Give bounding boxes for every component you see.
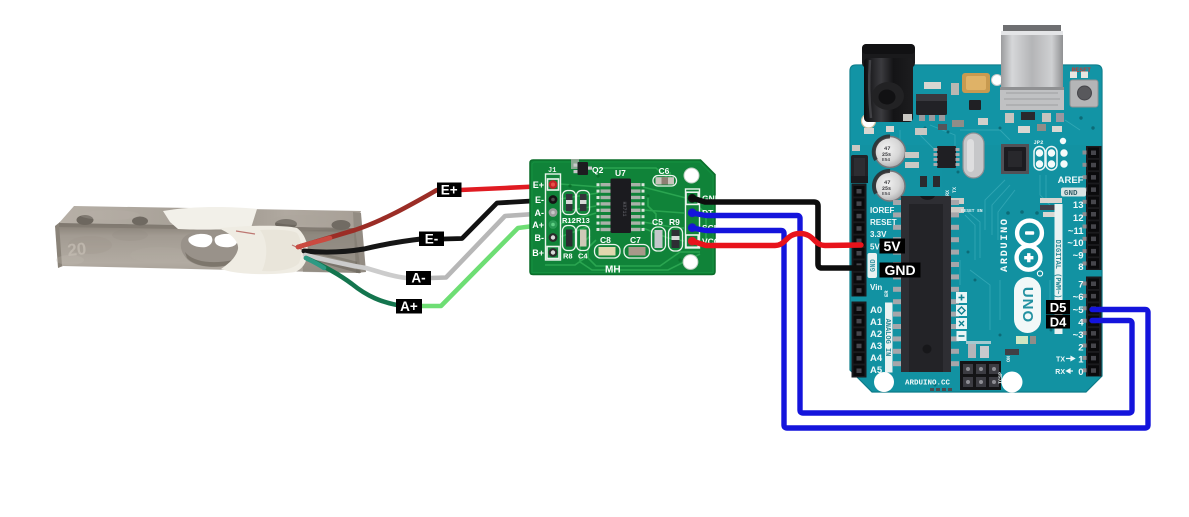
electrolytic capacitor C1 bbox=[874, 136, 906, 167]
HX711 pcb traces bbox=[545, 168, 706, 270]
svg-text:C4: C4 bbox=[578, 252, 588, 261]
resistor R12 bbox=[562, 191, 576, 226]
smd row below usb bbox=[952, 112, 1064, 127]
svg-text:~9: ~9 bbox=[1073, 251, 1084, 262]
svg-text:RX: RX bbox=[945, 190, 951, 196]
svg-text:~5: ~5 bbox=[1073, 305, 1085, 316]
left edge black component bbox=[851, 155, 868, 183]
svg-text:DIGITAL (PWM~): DIGITAL (PWM~) bbox=[1053, 240, 1061, 299]
label E- bbox=[419, 231, 444, 246]
wire GND HX711 to Arduino (black) bbox=[692, 198, 861, 268]
svg-text:MH: MH bbox=[605, 265, 621, 276]
svg-text:~10: ~10 bbox=[1067, 238, 1083, 249]
load cell bolt hole 2 bbox=[132, 217, 148, 226]
smd cluster mid right bbox=[950, 198, 1062, 217]
smd parts lower middle bbox=[966, 341, 991, 358]
svg-text:GND: GND bbox=[1064, 190, 1078, 198]
svg-text:Q2: Q2 bbox=[592, 165, 604, 175]
electrolytic capacitor C2 bbox=[874, 171, 905, 201]
svg-text:D5: D5 bbox=[1050, 300, 1067, 315]
USB interface MCU ATmega16U2 bbox=[1001, 144, 1029, 174]
J1 pin E- hole bbox=[549, 195, 558, 204]
wire VCC HX711 to Arduino 5V (red) bbox=[692, 234, 861, 246]
svg-text:B+: B+ bbox=[532, 248, 544, 258]
J1 pin labels bbox=[532, 180, 544, 258]
polyfuse bbox=[962, 73, 990, 93]
main MCU ATmega328 DIP bbox=[893, 196, 959, 372]
svg-text:C8: C8 bbox=[600, 235, 611, 245]
svg-text:GND: GND bbox=[884, 262, 915, 278]
svg-text:ON: ON bbox=[1006, 356, 1012, 362]
svg-text:TX: TX bbox=[1056, 357, 1065, 364]
label D5 bbox=[1046, 300, 1070, 315]
svg-text:D4: D4 bbox=[1050, 314, 1067, 329]
svg-text:AREF: AREF bbox=[1058, 175, 1084, 186]
load cell front face bbox=[59, 223, 361, 273]
digital header lower strip bbox=[1086, 277, 1102, 377]
svg-text:J1: J1 bbox=[548, 167, 556, 175]
svg-text:E54: E54 bbox=[882, 191, 890, 197]
J1 pin B- hole bbox=[549, 233, 558, 242]
load cell wire shadow 2 bbox=[307, 250, 357, 263]
digital header labels bbox=[1058, 175, 1085, 378]
analog header labels bbox=[870, 305, 883, 376]
Arduino mounting hole bottom right bbox=[1002, 372, 1023, 393]
small IC SO-8 bbox=[934, 146, 960, 168]
connector J1 outline bbox=[546, 174, 561, 260]
wire E+ segment from load cell (dark red) bbox=[298, 190, 437, 247]
HX711 mounting hole top right bbox=[684, 168, 699, 183]
capacitor C7 bbox=[624, 235, 650, 258]
wire E- segment from load cell (black) bbox=[304, 239, 421, 252]
svg-text:C7: C7 bbox=[630, 235, 641, 245]
reset button bbox=[1070, 80, 1098, 107]
svg-text:E54: E54 bbox=[882, 157, 890, 163]
svg-text:~11: ~11 bbox=[1068, 226, 1084, 237]
J2 pin labels bbox=[702, 194, 721, 247]
load cell epoxy blob bbox=[220, 226, 308, 274]
analog header strip bbox=[852, 302, 867, 378]
GND strip label digital bbox=[1061, 188, 1086, 199]
svg-text:13: 13 bbox=[1073, 200, 1084, 211]
svg-text:A-: A- bbox=[411, 271, 425, 286]
wire DT HX711 to Arduino D4 (blue) bbox=[692, 213, 1132, 413]
J2 GND square pad bbox=[686, 192, 698, 204]
J1 pin6 square pad bbox=[547, 247, 559, 259]
J1 pin B+ hole bbox=[549, 248, 558, 257]
label D4 bbox=[1046, 314, 1070, 329]
svg-text:RX: RX bbox=[1055, 369, 1065, 376]
label E+ bbox=[437, 182, 462, 197]
svg-text:ICSP: ICSP bbox=[998, 372, 1004, 384]
Arduino UNO board bbox=[850, 65, 1102, 392]
svg-text:A-: A- bbox=[535, 208, 545, 218]
load cell top face bbox=[59, 206, 361, 228]
wire A- to HX711 (gray) bbox=[430, 213, 549, 278]
load cell front face shadow right bbox=[300, 228, 361, 273]
svg-text:~3: ~3 bbox=[1073, 330, 1084, 341]
J2 pin DT hole bbox=[688, 208, 697, 217]
wire A+ teal start bbox=[306, 258, 324, 268]
label GND bbox=[880, 262, 921, 278]
USB connector bbox=[1000, 25, 1064, 110]
svg-text:ARDUINO.CC: ARDUINO.CC bbox=[905, 380, 951, 388]
svg-text:ER: ER bbox=[883, 290, 890, 297]
resistor R8 bbox=[563, 226, 576, 261]
svg-text:R13: R13 bbox=[576, 216, 590, 225]
load cell cutout cavity shadow bbox=[185, 252, 233, 267]
svg-text:12: 12 bbox=[1073, 213, 1084, 224]
svg-text:GND: GND bbox=[870, 259, 878, 272]
digital header pin stubs bbox=[1083, 151, 1087, 373]
wire A- segment from load cell (white) bbox=[305, 255, 407, 278]
resistor R13 bbox=[576, 191, 590, 226]
wire E+ bright start bbox=[298, 238, 330, 247]
svg-text:ANALOG IN: ANALOG IN bbox=[883, 319, 891, 357]
load cell bolt hole 3 bbox=[275, 219, 297, 229]
J2 VCC square pad bbox=[686, 235, 698, 247]
load cell body bbox=[55, 206, 366, 274]
UNO oval bbox=[1014, 277, 1041, 333]
svg-text:E-: E- bbox=[425, 231, 439, 246]
Arduino via dots bbox=[902, 116, 1095, 386]
label 5V bbox=[880, 238, 906, 254]
svg-text:HX711: HX711 bbox=[621, 201, 627, 216]
J2 pin VCC hole bbox=[688, 237, 697, 246]
svg-text:5V: 5V bbox=[883, 238, 901, 254]
load cell front face shadow band bbox=[59, 223, 355, 232]
label A+ bbox=[396, 299, 422, 314]
wire E- to HX711 (black) bbox=[443, 200, 549, 239]
crystal oscillator bbox=[963, 133, 984, 178]
svg-text:0: 0 bbox=[1078, 367, 1083, 378]
load cell bolt hole 1 bbox=[77, 215, 94, 225]
svg-text:E+: E+ bbox=[441, 182, 458, 197]
connector J2 output outline bbox=[686, 189, 700, 248]
Arduino infinity logo bbox=[1017, 221, 1043, 277]
wire SCK HX711 to Arduino D5 (blue) bbox=[692, 228, 1148, 428]
label A- bbox=[406, 271, 431, 286]
svg-text:C6: C6 bbox=[659, 166, 670, 176]
load cell wire shadow 1 bbox=[310, 258, 360, 272]
svg-text:C5: C5 bbox=[652, 217, 663, 227]
led and parts right low bbox=[1005, 336, 1036, 362]
svg-text:5V: 5V bbox=[870, 243, 880, 252]
load cell epoxy shade bbox=[260, 230, 301, 272]
svg-text:A4: A4 bbox=[870, 353, 883, 364]
svg-text:U7: U7 bbox=[615, 168, 626, 178]
smd caps near reset bbox=[1070, 72, 1077, 79]
svg-text:47: 47 bbox=[884, 145, 891, 152]
load cell cutout hole right bbox=[215, 234, 238, 247]
capacitor C5 bbox=[652, 217, 666, 251]
wire A+ to HX711 (bright green) bbox=[421, 224, 549, 306]
J2 pin SCK hole bbox=[688, 223, 697, 232]
HX711 module PCB bbox=[530, 160, 715, 275]
TX RX arrows bbox=[1055, 357, 1065, 377]
svg-text:RESET EN: RESET EN bbox=[961, 208, 983, 214]
prototype symbols column bbox=[956, 292, 967, 341]
load cell cutout cavity bbox=[181, 231, 242, 267]
J1 pin A+ hole bbox=[549, 220, 558, 229]
svg-text:A5: A5 bbox=[870, 365, 883, 376]
GND white strip label bbox=[868, 253, 879, 278]
load cell right end face bbox=[353, 212, 366, 273]
load cell left end face bbox=[55, 222, 63, 268]
capacitor C6 bbox=[653, 166, 677, 186]
svg-text:4: 4 bbox=[1078, 318, 1084, 329]
svg-text:A0: A0 bbox=[870, 305, 882, 316]
left edge pad bbox=[852, 145, 860, 151]
svg-text:A+: A+ bbox=[400, 299, 418, 314]
voltage regulator bbox=[916, 94, 947, 121]
svg-text:A+: A+ bbox=[532, 220, 544, 230]
capacitor C8 bbox=[595, 235, 621, 258]
capacitor C4 bbox=[577, 226, 590, 261]
DC power jack bbox=[862, 44, 915, 122]
load cell bolt hole 4 bbox=[332, 220, 351, 230]
svg-text:~6: ~6 bbox=[1073, 292, 1084, 303]
op-amp IC U7 bbox=[597, 168, 645, 233]
svg-text:A3: A3 bbox=[870, 341, 882, 352]
HX711 via dots bbox=[568, 174, 681, 261]
J2 pin GND hole bbox=[688, 194, 697, 203]
svg-text:E+: E+ bbox=[533, 180, 544, 190]
HX711 mounting hole bottom right bbox=[683, 255, 698, 270]
load cell epoxy top band bbox=[163, 207, 257, 230]
svg-text:8: 8 bbox=[1078, 262, 1083, 273]
svg-text:ARDUINO: ARDUINO bbox=[999, 217, 1011, 272]
svg-text:JP2: JP2 bbox=[1034, 139, 1044, 146]
ICSP header bbox=[960, 361, 1004, 390]
svg-text:RESET: RESET bbox=[870, 218, 897, 227]
Arduino pcb traces bbox=[900, 120, 1080, 330]
power header labels bbox=[870, 206, 897, 292]
resistor R9 bbox=[669, 217, 683, 251]
J1 pin A- hole bbox=[549, 208, 558, 217]
wire E+ to HX711 (bright red) bbox=[460, 186, 547, 190]
digital header upper strip bbox=[1086, 146, 1102, 270]
svg-text:IOREF: IOREF bbox=[870, 206, 895, 215]
load cell epoxy red strand bbox=[236, 231, 303, 250]
DIGITAL PWM strip bbox=[1053, 204, 1063, 334]
svg-text:2: 2 bbox=[1078, 343, 1083, 354]
load cell cutout hole left bbox=[188, 234, 212, 247]
Arduino mounting hole near USB bbox=[992, 75, 1003, 86]
power header strip bbox=[852, 184, 867, 297]
Arduino mounting hole bottom left bbox=[874, 372, 894, 392]
smd parts top bbox=[924, 82, 941, 89]
svg-text:A2: A2 bbox=[870, 329, 882, 340]
svg-text:R9: R9 bbox=[669, 217, 680, 227]
svg-text:B-: B- bbox=[535, 233, 545, 243]
J1 pin1 square pad bbox=[548, 179, 559, 190]
wire A+ segment from load cell (dark green) bbox=[306, 258, 397, 305]
Arduino mounting hole top left bbox=[862, 114, 876, 128]
svg-text:1: 1 bbox=[1078, 355, 1084, 366]
bottom edge pads bbox=[930, 388, 952, 391]
svg-text:7: 7 bbox=[1078, 280, 1083, 291]
load cell texture patches bbox=[56, 208, 328, 265]
svg-text:E-: E- bbox=[535, 195, 544, 205]
svg-text:R12: R12 bbox=[562, 216, 576, 225]
svg-text:R8: R8 bbox=[563, 252, 573, 261]
svg-text:47: 47 bbox=[884, 179, 891, 186]
svg-text:A1: A1 bbox=[870, 317, 883, 328]
J1 pin E+ hole bbox=[549, 180, 558, 189]
svg-text:20: 20 bbox=[66, 239, 87, 260]
smd resistors mid bbox=[905, 152, 919, 158]
ANALOG IN strip bbox=[883, 303, 892, 373]
svg-text:TX: TX bbox=[952, 187, 958, 193]
JP2 pads bbox=[1034, 138, 1068, 170]
smd parts row upper mid bbox=[864, 124, 1062, 135]
svg-text:Vin: Vin bbox=[870, 283, 882, 292]
transistor Q2 bbox=[571, 159, 604, 175]
svg-text:UNO: UNO bbox=[1019, 287, 1036, 323]
